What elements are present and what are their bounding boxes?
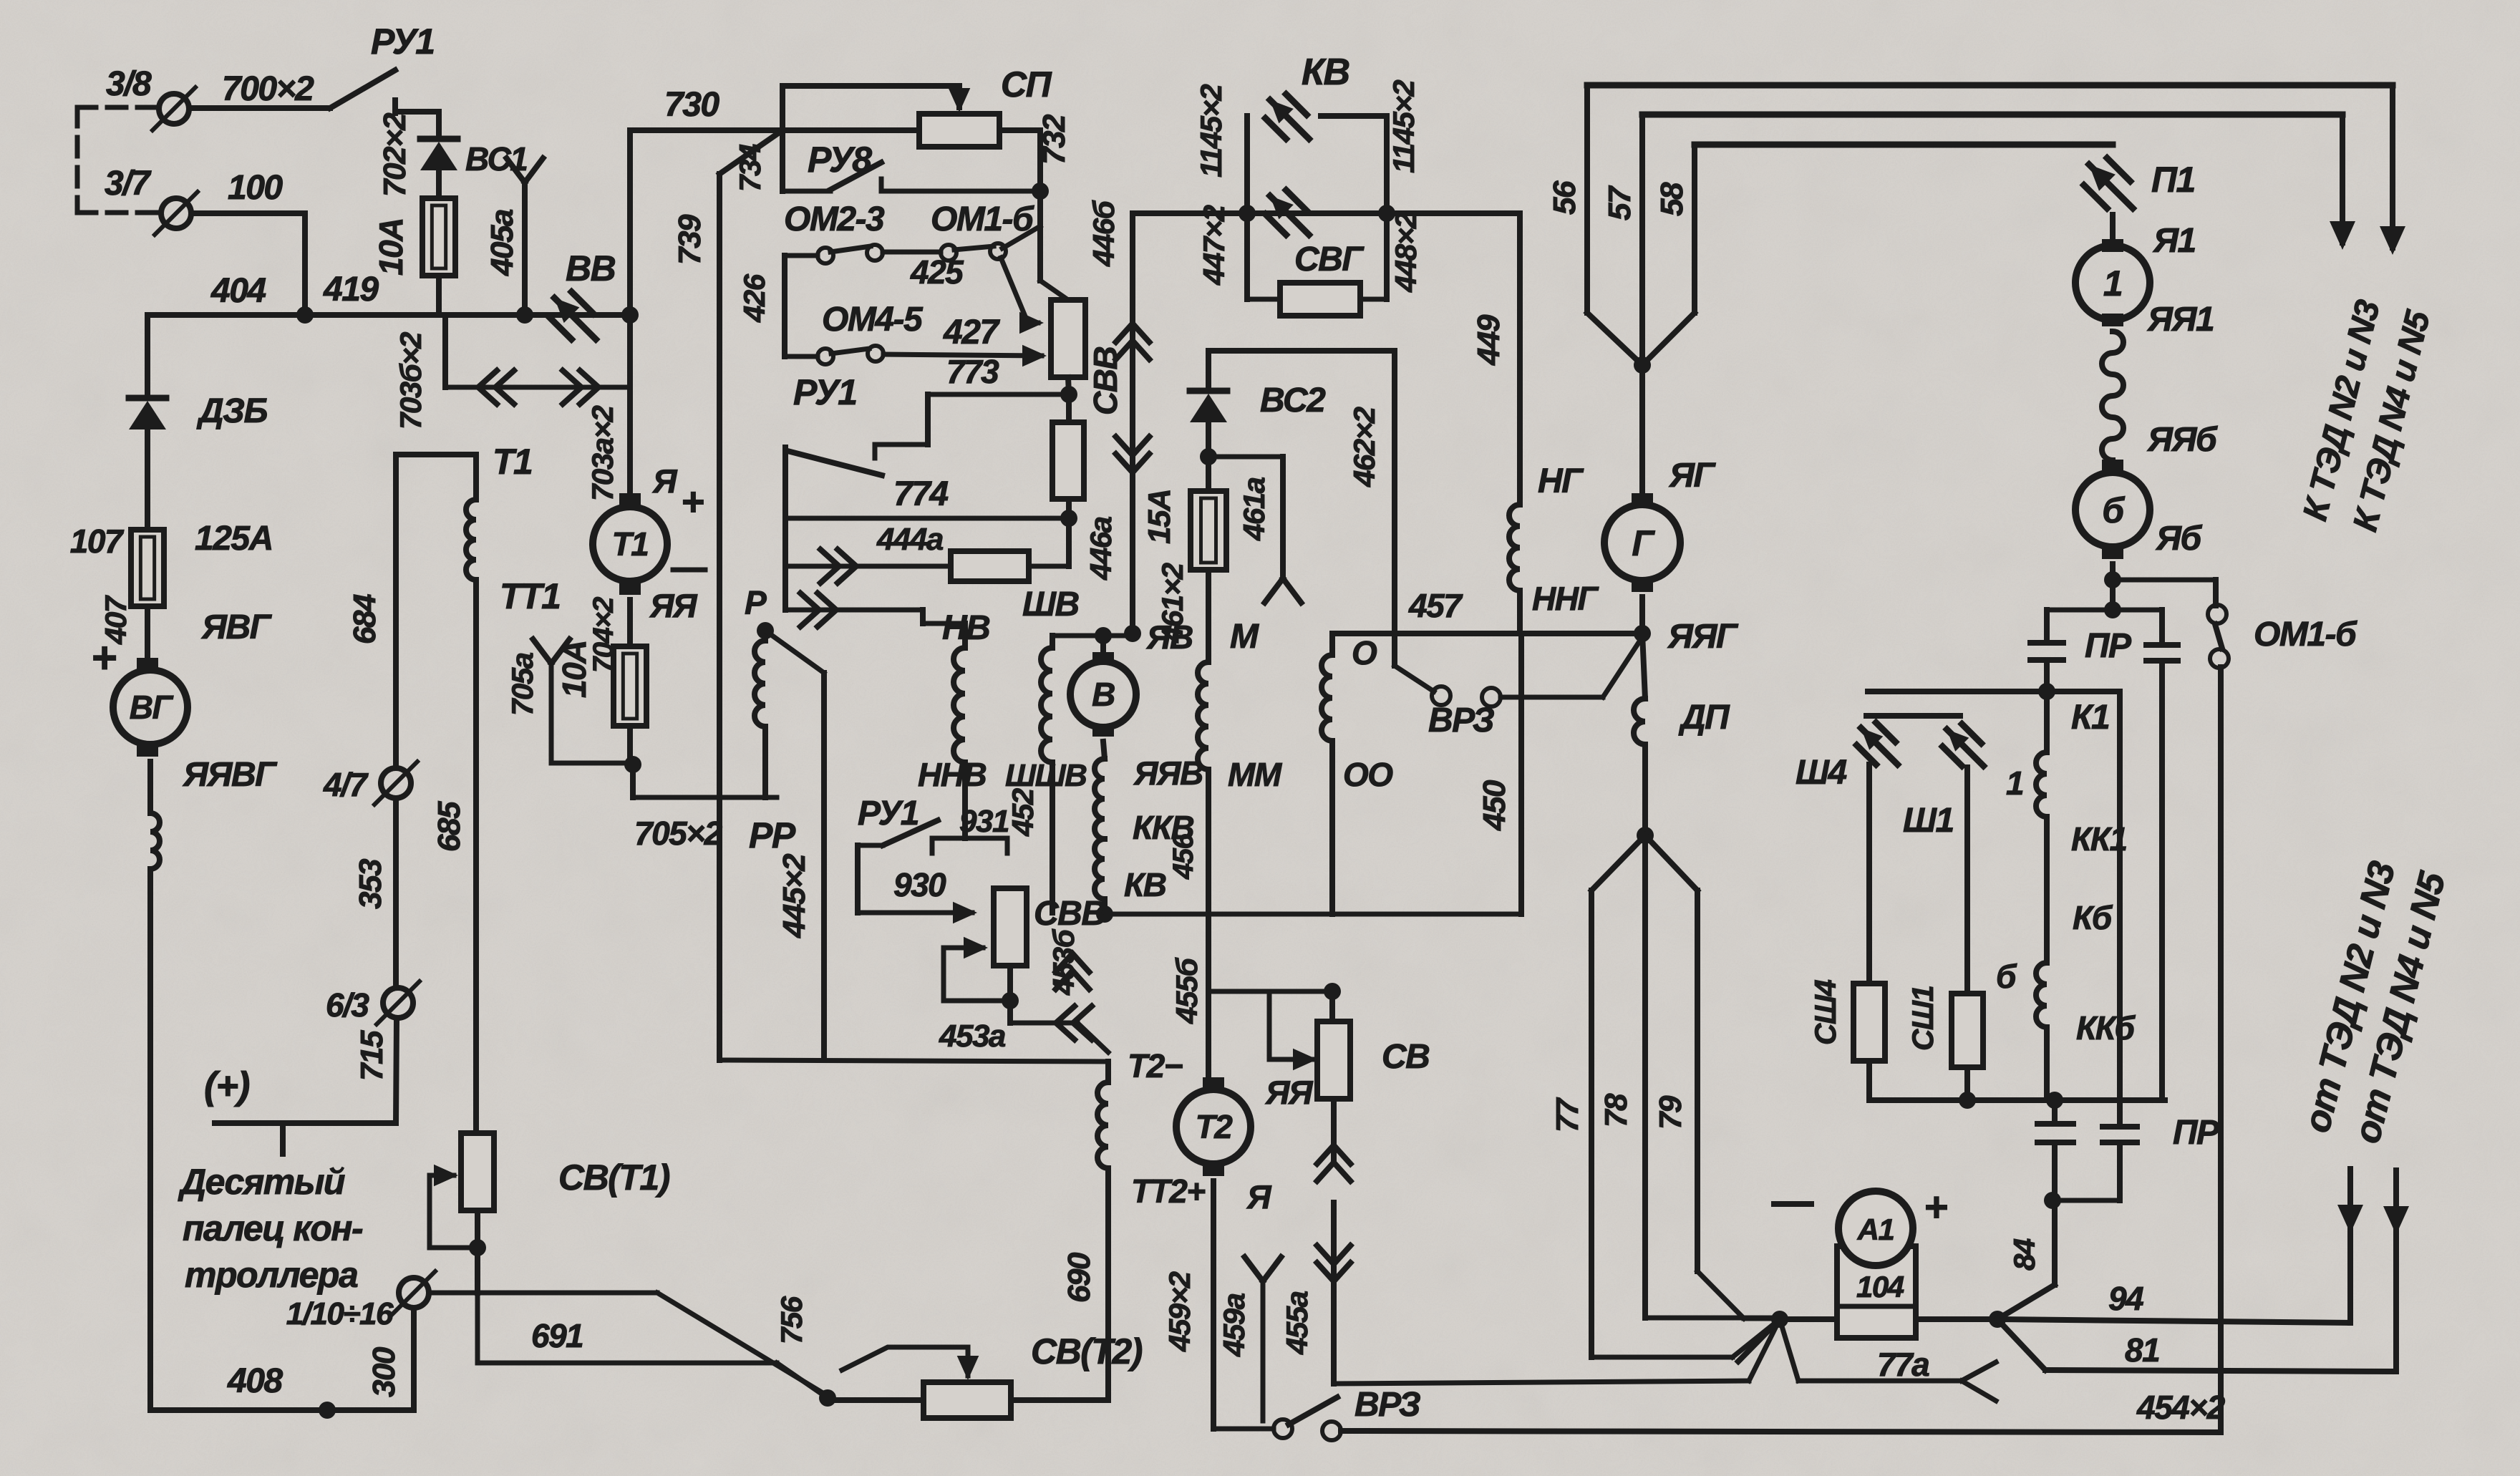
- svg-text:СВ(Т2): СВ(Т2): [1031, 1331, 1143, 1371]
- svg-text:773: 773: [946, 353, 999, 390]
- svg-text:419: 419: [323, 271, 379, 309]
- svg-text:739: 739: [672, 214, 707, 265]
- svg-text:РУ1: РУ1: [371, 21, 435, 62]
- svg-text:палец кон-: палец кон-: [183, 1208, 363, 1248]
- svg-text:ЯЯ1: ЯЯ1: [2146, 301, 2214, 339]
- svg-text:756: 756: [775, 1296, 808, 1344]
- svg-text:ОМ1-б: ОМ1-б: [931, 200, 1034, 238]
- svg-text:447×2: 447×2: [1197, 205, 1231, 286]
- svg-text:94: 94: [2108, 1280, 2143, 1317]
- svg-text:300: 300: [367, 1346, 402, 1397]
- svg-text:1145×2: 1145×2: [1194, 84, 1228, 178]
- svg-text:702×2: 702×2: [377, 112, 412, 197]
- svg-text:ММ: ММ: [1228, 756, 1283, 793]
- svg-text:3/7: 3/7: [105, 165, 152, 203]
- svg-text:408: 408: [227, 1362, 283, 1400]
- svg-text:100: 100: [228, 169, 283, 207]
- svg-text:4/7: 4/7: [323, 766, 369, 803]
- svg-text:454×2: 454×2: [2136, 1389, 2226, 1426]
- svg-text:450: 450: [1477, 780, 1512, 831]
- svg-text:ПР: ПР: [2085, 627, 2132, 665]
- svg-text:427: 427: [943, 314, 1000, 351]
- svg-text:15А: 15А: [1142, 490, 1177, 544]
- svg-text:В: В: [1092, 676, 1115, 713]
- svg-text:ККб: ККб: [2076, 1009, 2136, 1047]
- svg-text:459а: 459а: [1217, 1293, 1251, 1357]
- svg-text:ЯЯ: ЯЯ: [1265, 1074, 1314, 1111]
- svg-text:Ш1: Ш1: [1903, 802, 1954, 840]
- svg-text:НГ: НГ: [1538, 462, 1584, 500]
- svg-text:ЯГ: ЯГ: [1668, 457, 1716, 495]
- svg-text:+: +: [92, 633, 117, 683]
- svg-text:774: 774: [893, 475, 948, 513]
- svg-text:ОМ4-5: ОМ4-5: [822, 301, 924, 339]
- svg-text:СВВ: СВВ: [1034, 895, 1105, 933]
- svg-text:405а: 405а: [485, 209, 520, 276]
- svg-text:705×2: 705×2: [634, 815, 723, 852]
- svg-text:445×2: 445×2: [777, 853, 812, 938]
- svg-text:449: 449: [1471, 314, 1506, 366]
- svg-text:ВС2: ВС2: [1260, 382, 1326, 419]
- svg-text:ЯЯВГ: ЯЯВГ: [182, 756, 278, 794]
- svg-text:684: 684: [347, 594, 382, 644]
- svg-text:Г: Г: [1632, 523, 1655, 563]
- svg-text:107: 107: [70, 523, 125, 560]
- svg-text:Я: Я: [1246, 1178, 1272, 1215]
- svg-text:84: 84: [2007, 1238, 2041, 1271]
- svg-text:78: 78: [1599, 1093, 1634, 1127]
- svg-text:А1: А1: [1857, 1213, 1894, 1246]
- svg-text:КК1: КК1: [2071, 820, 2127, 858]
- svg-text:РУ8: РУ8: [808, 140, 872, 180]
- svg-text:ВВ: ВВ: [566, 248, 616, 288]
- svg-text:ЯЯГ: ЯЯГ: [1667, 618, 1739, 656]
- svg-text:77а: 77а: [1877, 1346, 1929, 1383]
- svg-text:685: 685: [432, 801, 467, 852]
- svg-text:СШ4: СШ4: [1808, 980, 1842, 1045]
- svg-text:457: 457: [1408, 587, 1463, 624]
- svg-text:СВГ: СВГ: [1294, 241, 1365, 278]
- svg-text:ОМ2-3: ОМ2-3: [784, 200, 885, 238]
- svg-text:444а: 444а: [876, 522, 944, 557]
- svg-text:ТТ2+: ТТ2+: [1131, 1172, 1205, 1210]
- svg-text:461×2: 461×2: [1155, 563, 1189, 644]
- svg-text:691: 691: [531, 1317, 583, 1354]
- svg-text:690: 690: [1062, 1252, 1097, 1303]
- svg-text:б: б: [2102, 490, 2126, 530]
- svg-text:РУ1: РУ1: [793, 372, 857, 412]
- svg-text:448×2: 448×2: [1389, 212, 1423, 293]
- svg-text:Яб: Яб: [2155, 520, 2202, 558]
- svg-text:ННВ: ННВ: [918, 756, 986, 793]
- svg-text:ДП: ДП: [1678, 699, 1730, 737]
- svg-text:455а: 455а: [1280, 1291, 1314, 1355]
- svg-text:троллера: троллера: [185, 1255, 358, 1295]
- svg-text:ННГ: ННГ: [1532, 580, 1599, 617]
- svg-text:353: 353: [353, 859, 388, 909]
- svg-text:58: 58: [1654, 182, 1690, 216]
- svg-text:НВ: НВ: [942, 609, 989, 647]
- svg-text:426: 426: [737, 273, 771, 323]
- svg-text:446а: 446а: [1084, 516, 1118, 581]
- svg-text:К1: К1: [2071, 699, 2109, 737]
- svg-text:П1: П1: [2151, 160, 2195, 200]
- svg-text:ШВ: ШВ: [1022, 586, 1079, 623]
- svg-text:Кб: Кб: [2073, 899, 2113, 936]
- svg-text:М: М: [1230, 618, 1259, 656]
- svg-text:ПР: ПР: [2173, 1114, 2220, 1152]
- svg-text:+: +: [1924, 1184, 1947, 1230]
- svg-text:Т1: Т1: [493, 442, 532, 482]
- svg-text:Т2: Т2: [1196, 1108, 1234, 1145]
- svg-text:10А: 10А: [372, 218, 409, 276]
- svg-text:459×2: 459×2: [1163, 1271, 1196, 1352]
- svg-text:462×2: 462×2: [1347, 407, 1381, 487]
- svg-text:ЯЯВ: ЯЯВ: [1133, 754, 1203, 792]
- svg-text:700×2: 700×2: [222, 70, 314, 108]
- svg-text:ШШВ: ШШВ: [1005, 758, 1087, 793]
- svg-text:Я: Я: [652, 462, 678, 500]
- svg-text:446б: 446б: [1087, 200, 1120, 267]
- svg-text:125А: 125А: [195, 520, 273, 558]
- svg-text:452: 452: [1006, 788, 1039, 837]
- svg-text:732: 732: [1037, 114, 1072, 165]
- svg-text:ВГ: ВГ: [130, 689, 174, 726]
- svg-text:715: 715: [354, 1030, 389, 1081]
- svg-text:1: 1: [2006, 764, 2023, 802]
- svg-text:+: +: [682, 479, 704, 524]
- svg-text:704×2: 704×2: [588, 597, 619, 673]
- svg-text:703а×2: 703а×2: [586, 406, 619, 501]
- svg-text:СВ: СВ: [1382, 1038, 1429, 1076]
- svg-text:453а: 453а: [939, 1019, 1006, 1054]
- svg-text:Я1: Я1: [2152, 222, 2196, 260]
- svg-text:734: 734: [733, 144, 767, 192]
- svg-text:404: 404: [210, 272, 266, 310]
- svg-text:56: 56: [1547, 180, 1582, 215]
- svg-text:77: 77: [1550, 1097, 1585, 1132]
- svg-text:СВ(Т1): СВ(Т1): [558, 1157, 670, 1198]
- svg-text:ТТ1: ТТ1: [500, 576, 560, 616]
- svg-text:1145×2: 1145×2: [1387, 80, 1420, 173]
- svg-text:РР: РР: [749, 815, 796, 855]
- svg-text:ОМ1-б: ОМ1-б: [2254, 616, 2357, 654]
- svg-text:425: 425: [910, 253, 964, 291]
- svg-text:б: б: [1996, 958, 2017, 995]
- svg-text:79: 79: [1653, 1095, 1688, 1130]
- svg-text:ЯЯ: ЯЯ: [649, 587, 698, 624]
- svg-text:703б×2: 703б×2: [394, 332, 427, 429]
- svg-text:455б: 455б: [1170, 957, 1203, 1024]
- svg-text:ВРЗ: ВРЗ: [1428, 701, 1494, 739]
- svg-text:ВРЗ: ВРЗ: [1354, 1386, 1420, 1424]
- svg-text:Десятый: Десятый: [178, 1162, 345, 1202]
- svg-text:461а: 461а: [1237, 477, 1271, 541]
- svg-text:705а: 705а: [505, 652, 539, 716]
- svg-text:730: 730: [664, 86, 719, 124]
- svg-text:КВ: КВ: [1124, 866, 1166, 903]
- svg-text:Ш4: Ш4: [1795, 754, 1846, 792]
- svg-text:ОО: ОО: [1343, 756, 1393, 793]
- svg-text:СВВ: СВВ: [1087, 347, 1124, 415]
- svg-text:(+): (+): [204, 1064, 250, 1107]
- svg-text:1: 1: [2103, 263, 2122, 304]
- svg-text:ЯЯб: ЯЯб: [2146, 421, 2218, 459]
- svg-text:57: 57: [1602, 185, 1637, 220]
- svg-text:456: 456: [1168, 833, 1199, 880]
- svg-text:104: 104: [1856, 1270, 1904, 1303]
- svg-text:КВ: КВ: [1302, 52, 1349, 93]
- svg-text:6/3: 6/3: [326, 986, 369, 1024]
- svg-text:РУ1: РУ1: [858, 795, 919, 832]
- svg-text:СШ1: СШ1: [1906, 986, 1939, 1051]
- svg-text:Р: Р: [745, 584, 767, 621]
- svg-text:О: О: [1352, 634, 1377, 671]
- svg-text:931: 931: [959, 804, 1009, 839]
- svg-text:СП: СП: [1001, 64, 1052, 105]
- svg-text:Т2−: Т2−: [1128, 1047, 1183, 1084]
- svg-text:Т1: Т1: [612, 525, 649, 563]
- svg-text:1/10÷16: 1/10÷16: [286, 1296, 394, 1331]
- svg-text:3/8: 3/8: [106, 65, 152, 103]
- svg-text:ДЗБ: ДЗБ: [196, 392, 268, 430]
- svg-text:81: 81: [2125, 1331, 2159, 1369]
- svg-text:ЯВГ: ЯВГ: [200, 608, 273, 646]
- svg-text:930: 930: [893, 866, 946, 903]
